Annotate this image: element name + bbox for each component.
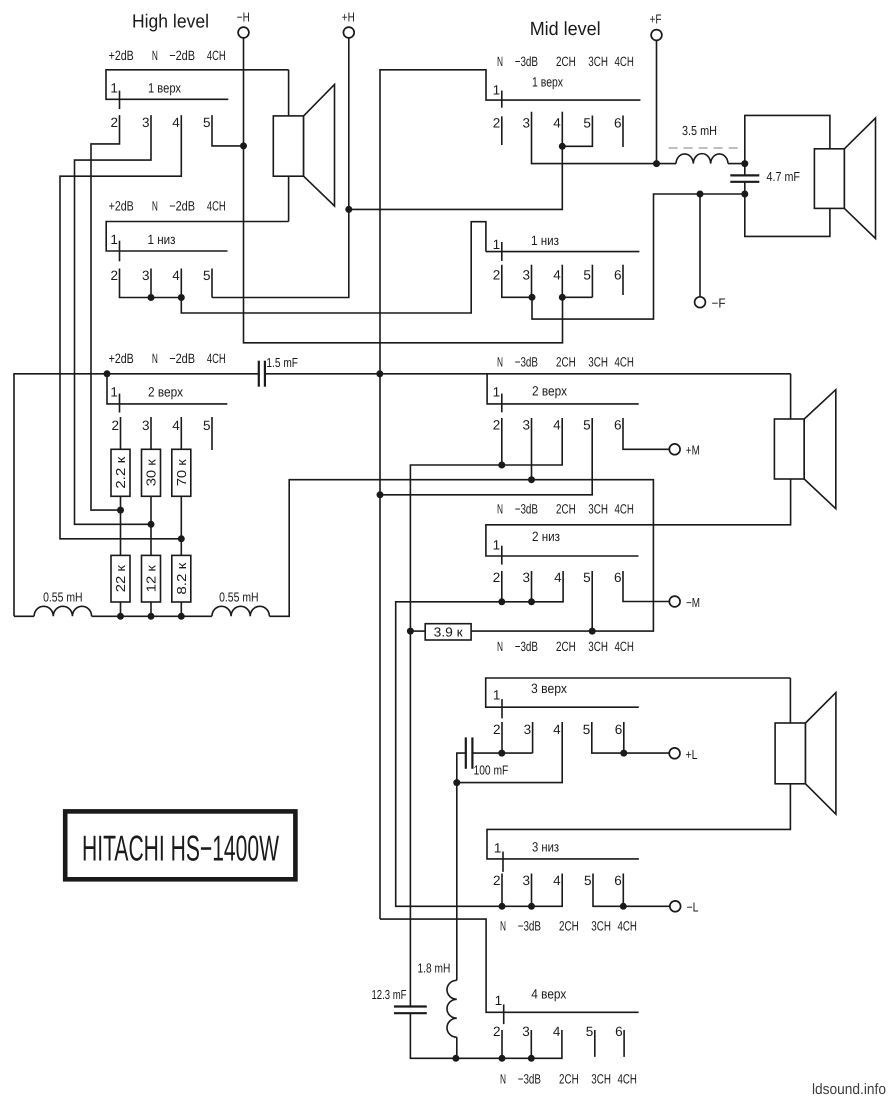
node capacitor C1 bottom [741, 191, 748, 198]
resistor R7 3.9k body [425, 624, 471, 640]
pin 2 lead high 2-verh into resistor R1 [120, 417, 122, 449]
wire capacitor C4 right lead to pin2 [472, 752, 532, 754]
svg-text:1: 1 [493, 688, 501, 703]
svg-text:70 к: 70 к [174, 459, 189, 486]
svg-text:1: 1 [493, 83, 501, 98]
svg-text:4: 4 [172, 268, 180, 283]
wire mid 2-verh pin6 to +M terminal [623, 418, 670, 449]
svg-text:5: 5 [583, 570, 591, 585]
pin 2 tick mid 2-verh [501, 418, 503, 465]
svg-text:5: 5 [584, 873, 592, 888]
svg-text:N: N [497, 639, 503, 654]
capacitor C4 100 mF right plate [471, 737, 473, 768]
svg-text:12 к: 12 к [144, 565, 159, 592]
pin 4 tick mid 1-verh [561, 112, 563, 147]
svg-text:−2dB: −2dB [169, 351, 195, 366]
wire mid 3-niz pin5 to -L terminal [593, 874, 671, 907]
speaker BM mid cone [804, 390, 836, 509]
svg-text:4: 4 [172, 418, 180, 433]
speaker BM mid driver [774, 419, 804, 479]
wire mid 1-verh pin4 to pin5 [562, 116, 592, 147]
wire speaker M loop and block mid 2-niz box [486, 374, 791, 556]
capacitor C2 1.5 mF left plate [258, 361, 260, 387]
svg-text:4CH: 4CH [615, 355, 634, 370]
speaker BL low cone [806, 693, 836, 815]
wire high 1-verh pin3 to left bus to resistor tap B [75, 115, 152, 524]
svg-text:3: 3 [522, 115, 530, 130]
wire mid 1-verh pin4 down-left to +H node [349, 146, 563, 209]
node high 1-verh pin5 on -H [240, 142, 247, 149]
terminal -L [670, 901, 681, 912]
svg-text:+F: +F [650, 12, 662, 27]
pin 1 tick high 1-verh [119, 91, 121, 110]
switch block high 2-verh outline [107, 374, 227, 404]
svg-text:4CH: 4CH [615, 502, 634, 517]
svg-text:100 mF: 100 mF [474, 763, 509, 778]
svg-text:3: 3 [142, 268, 150, 283]
wire resistor chain B bottom [150, 602, 152, 616]
resistor R2 30k body [142, 449, 161, 496]
svg-text:N: N [497, 502, 503, 517]
svg-text:6: 6 [614, 418, 622, 433]
svg-text:−3dB: −3dB [518, 1072, 541, 1087]
svg-text:2 верх: 2 верх [532, 384, 567, 399]
wire resistor chain A mid [120, 496, 122, 555]
svg-text:−3dB: −3dB [515, 639, 538, 654]
svg-text:1: 1 [493, 538, 501, 553]
node mid 3-niz pin3 [528, 903, 535, 910]
switch block mid 1-niz underline [486, 251, 640, 253]
svg-text:1.5 mF: 1.5 mF [266, 355, 298, 370]
svg-text:N: N [497, 355, 503, 370]
svg-text:−3dB: −3dB [515, 502, 538, 517]
svg-text:4CH: 4CH [207, 48, 226, 63]
svg-text:2: 2 [493, 1024, 501, 1039]
svg-text:6: 6 [614, 570, 622, 585]
wire bus below capacitor C5 to 4-verh pins [410, 1013, 562, 1058]
node 4-verh pin2 [499, 1055, 506, 1062]
pin 3 tick mid 2-niz [531, 571, 533, 602]
speaker BF front driver [814, 149, 844, 209]
svg-text:5: 5 [203, 418, 211, 433]
pin 1 tick mid 3-niz [502, 852, 504, 872]
resistor R3 70k body [172, 449, 191, 496]
svg-text:−3dB: −3dB [518, 919, 541, 934]
pin 2 tick mid 2-niz [501, 571, 503, 602]
svg-text:+2dB: +2dB [109, 351, 134, 366]
svg-text:2CH: 2CH [556, 355, 576, 370]
svg-text:−3dB: −3dB [515, 355, 538, 370]
svg-text:6: 6 [614, 267, 622, 282]
inductor L3 0.55 mH winding [212, 606, 270, 616]
svg-text:4CH: 4CH [207, 351, 226, 366]
wire mid 3-verh pin5 to +L terminal [592, 722, 670, 753]
svg-text:ldsound.info: ldsound.info [812, 1081, 886, 1098]
svg-text:1: 1 [110, 81, 118, 96]
wire resistor chain C bottom [180, 602, 182, 616]
pin 3 tick mid 3-niz [531, 874, 533, 907]
wire high 1-verh pin5 to -H node [212, 115, 244, 146]
svg-text:3CH: 3CH [588, 355, 608, 370]
svg-text:1: 1 [110, 232, 118, 247]
svg-text:2: 2 [493, 267, 501, 282]
wire mid 2-niz pin5 to resistor R7 net [591, 571, 593, 631]
svg-text:−H: −H [237, 10, 250, 25]
svg-text:2: 2 [493, 418, 501, 433]
svg-text:5: 5 [583, 722, 591, 737]
pin 1 tick mid 2-verh [501, 394, 503, 413]
svg-text:2CH: 2CH [556, 639, 576, 654]
svg-text:2: 2 [493, 722, 501, 737]
terminal +M [669, 444, 680, 455]
svg-text:1.8 mH: 1.8 mH [418, 961, 451, 976]
pin 1 tick mid 1-niz [501, 242, 503, 261]
svg-text:3CH: 3CH [591, 919, 611, 934]
wire high 1-niz pin2 to pin4 [120, 269, 182, 298]
switch block mid 2-verh outline [487, 374, 639, 404]
svg-text:3: 3 [522, 267, 530, 282]
pin 5 tick high 1-niz [211, 269, 213, 298]
svg-text:1: 1 [495, 993, 503, 1008]
pin 1 tick mid 3-verh [501, 699, 503, 718]
svg-text:2: 2 [110, 115, 118, 130]
svg-text:4CH: 4CH [615, 639, 634, 654]
capacitor C5 12.3 mF bottom plate [394, 1012, 427, 1014]
wire high 1-niz pin4 to mid 1-niz block entry [181, 222, 486, 313]
svg-text:N: N [152, 48, 158, 63]
svg-text:1 низ: 1 низ [148, 232, 176, 247]
pin 3 tick mid 4-verh [530, 1030, 532, 1058]
terminal -M [669, 596, 680, 607]
svg-text:3: 3 [522, 1024, 530, 1039]
node resistor R7 to bus [407, 628, 414, 635]
svg-text:1 верх: 1 верх [532, 75, 563, 90]
wire resistor chain C mid [180, 496, 182, 555]
node mid 2-niz pin5 [589, 628, 596, 635]
svg-text:1 низ: 1 низ [531, 233, 559, 248]
pin 5 tick mid 4-verh [594, 1030, 596, 1057]
node mid 2-niz pin2 [498, 598, 505, 605]
node mid 1-niz pin4 [559, 294, 566, 301]
wire inductor L1 to speaker F loop [728, 163, 745, 165]
node mid 3-niz pin2 [499, 903, 506, 910]
svg-text:6: 6 [614, 115, 622, 130]
wire capacitor C2 right lead to mid 2-verh top and speaker M [265, 373, 791, 375]
svg-text:12.3 mF: 12.3 mF [372, 987, 407, 1002]
pin 5 tick high 2-verh [211, 417, 213, 450]
svg-text:2.2 к: 2.2 к [113, 456, 128, 488]
svg-text:High level: High level [132, 12, 209, 33]
wire mid 3-verh pin4 to capacitor C4 node [457, 722, 562, 783]
svg-text:8.2 к: 8.2 к [174, 562, 189, 594]
speaker BL low driver [775, 723, 805, 784]
pin 3 lead mid 2-verh [531, 418, 533, 480]
node high 2-verh top [104, 370, 111, 377]
svg-text:5: 5 [583, 267, 591, 282]
wire capacitor C4 left lead down to node [457, 753, 466, 783]
svg-text:4: 4 [172, 115, 180, 130]
wire +F terminal lead [656, 40, 658, 164]
pin 6 tick mid 3-niz [622, 874, 624, 907]
svg-text:6: 6 [615, 1024, 623, 1039]
svg-text:2: 2 [111, 418, 119, 433]
capacitor C2 1.5 mF right plate [264, 361, 266, 387]
svg-text:4CH: 4CH [618, 919, 637, 934]
svg-text:4: 4 [553, 115, 561, 130]
svg-text:2: 2 [493, 570, 501, 585]
svg-text:HITACHI HS−1400W: HITACHI HS−1400W [82, 828, 279, 869]
node bottom bus L4 [452, 1055, 459, 1062]
wire high speaker loop right drop [288, 70, 290, 222]
terminal +L [669, 748, 680, 759]
svg-text:N: N [152, 351, 158, 366]
svg-text:+L: +L [686, 747, 698, 762]
svg-text:−L: −L [687, 900, 699, 915]
node high 1-niz pin4 [178, 294, 185, 301]
capacitor C1 4.7 mF bottom plate [730, 181, 759, 183]
terminal +F [651, 30, 662, 41]
svg-text:−M: −M [686, 595, 700, 610]
wire mid 2-verh pin5 to main bus [380, 418, 592, 495]
svg-text:4: 4 [553, 873, 561, 888]
wire mid 1-niz pin4 to pin5 [562, 296, 592, 298]
svg-text:3: 3 [522, 873, 530, 888]
speaker BF front cone [844, 118, 875, 239]
svg-text:4: 4 [553, 1024, 561, 1039]
node 4-verh pin3 [528, 1055, 535, 1062]
svg-text:4CH: 4CH [207, 199, 226, 214]
node bottom bus A [117, 613, 124, 620]
svg-text:3: 3 [522, 418, 530, 433]
svg-text:3: 3 [142, 115, 150, 130]
pin 2 tick mid 4-verh [501, 1030, 503, 1058]
pin 2 tick mid 3-niz [501, 874, 503, 907]
svg-text:2: 2 [493, 873, 501, 888]
svg-text:5: 5 [203, 268, 211, 283]
node mid 1-niz pin3 [529, 294, 536, 301]
wire resistor chain B mid [150, 496, 152, 555]
node resistor tap B [148, 521, 155, 528]
wire speaker F loop [745, 115, 830, 236]
svg-text:2 верх: 2 верх [148, 385, 183, 400]
svg-text:6: 6 [614, 873, 622, 888]
wire bus to mid 2-verh pin2 and pin4 and down to capacitor C5 [410, 418, 562, 1006]
svg-text:4 верх: 4 верх [531, 987, 566, 1002]
terminal +H [343, 27, 354, 38]
node main bus at C2 net [376, 370, 383, 377]
svg-text:4: 4 [553, 418, 561, 433]
resistor R1 2.2k body [111, 449, 130, 496]
svg-text:3 низ: 3 низ [532, 840, 559, 855]
svg-text:30 к: 30 к [144, 459, 159, 486]
wire resistor R7 left lead [410, 630, 425, 632]
pin 4 tick high 1-niz [180, 269, 182, 298]
svg-text:0.55 mH: 0.55 mH [43, 589, 83, 604]
svg-text:1: 1 [110, 385, 118, 400]
pin 5 tick mid 1-niz [591, 265, 593, 298]
node high 1-niz pin3 [148, 294, 155, 301]
svg-text:2CH: 2CH [559, 1072, 579, 1087]
svg-text:0.55 mH: 0.55 mH [219, 589, 259, 604]
pin 1 tick mid 4-verh [503, 1004, 505, 1024]
svg-text:5: 5 [203, 115, 211, 130]
wire bottom bus middle segment [92, 615, 212, 617]
pin 1 tick mid 2-niz [501, 546, 503, 565]
pin 4 lead high 2-verh into resistor R3 [180, 417, 182, 449]
terminal -F [695, 297, 706, 308]
svg-text:2CH: 2CH [556, 54, 576, 69]
capacitor C4 100 mF left plate [465, 737, 467, 768]
pin 3 tick mid 3-verh [532, 722, 534, 753]
node mid 2-verh pin3 [528, 476, 535, 483]
pin 1 tick high 1-niz [119, 241, 121, 262]
svg-text:5: 5 [583, 115, 591, 130]
dashed link line above inductor L1 [669, 147, 739, 149]
wire resistor chain A bottom [120, 602, 122, 616]
resistor R5 12k body [142, 555, 161, 602]
svg-text:4CH: 4CH [618, 1072, 637, 1087]
wire bottom bus to mid 2-verh pin3 and down to resistor R7 [269, 480, 653, 631]
svg-text:1 верх: 1 верх [148, 81, 181, 96]
node mid 2-verh pin2 [498, 462, 505, 469]
svg-text:3.5 mH: 3.5 mH [682, 123, 717, 138]
pin 3 tick high 1-niz [150, 269, 152, 298]
node mid 1-verh pin4 [559, 143, 566, 150]
svg-text:4CH: 4CH [615, 54, 634, 69]
wire -F net from speaker loop across and down to mid 1-niz pin3 [532, 194, 745, 319]
svg-text:+M: +M [686, 443, 700, 458]
wire bus entry of block 4-verh [380, 919, 639, 1012]
svg-text:−3dB: −3dB [515, 54, 538, 69]
wire +H terminal lead down to high 1-niz pin5 [212, 37, 349, 297]
node resistor tap C [178, 535, 185, 542]
capacitor C1 4.7 mF top plate [730, 174, 759, 176]
node bottom bus C [178, 613, 185, 620]
svg-text:+2dB: +2dB [109, 199, 134, 214]
svg-text:2 низ: 2 низ [532, 529, 560, 544]
svg-text:3: 3 [522, 570, 530, 585]
speaker BH high cone [304, 85, 335, 207]
wire capacitor C2 left lead and left bus down to inductor L2 [14, 374, 259, 617]
svg-text:3.9 к: 3.9 к [434, 624, 463, 639]
node +H junction [345, 206, 352, 213]
wire high 1-verh pin2 to left bus to resistor tap A [91, 115, 121, 510]
svg-text:Mid level: Mid level [530, 19, 601, 40]
svg-text:N: N [500, 919, 506, 934]
wire mid 1-niz pin2 to pin3 [502, 265, 532, 298]
svg-text:N: N [152, 199, 158, 214]
pin 1 tick high 2-verh [119, 394, 121, 413]
wire speaker L loop and block mid 3-niz box [487, 678, 790, 859]
node mid 2-niz pin3 [528, 598, 535, 605]
pin 4 tick mid 1-niz [561, 265, 563, 298]
svg-text:4: 4 [553, 722, 561, 737]
wire mid 2-niz pin6 to -M terminal [623, 571, 670, 602]
svg-text:−2dB: −2dB [169, 48, 195, 63]
svg-text:+2dB: +2dB [109, 48, 134, 63]
svg-text:3: 3 [524, 722, 532, 737]
svg-text:5: 5 [583, 418, 591, 433]
svg-text:2CH: 2CH [556, 502, 576, 517]
wire -F terminal lead [699, 194, 701, 297]
node mid 3-verh pin2 [498, 750, 505, 757]
resistor R6 8.2k body [172, 555, 191, 602]
inductor L1 3.5 mH winding [676, 154, 728, 164]
node mid 3-niz pin6 [620, 903, 627, 910]
switch block mid 3-verh outline with speaker L feed [486, 678, 791, 707]
pin 6 tick mid 3-verh [623, 722, 625, 753]
speaker BH high driver [273, 116, 303, 176]
svg-text:22 к: 22 к [113, 565, 128, 592]
node -F junction [697, 191, 704, 198]
node bottom bus B [148, 613, 155, 620]
svg-text:2CH: 2CH [559, 919, 579, 934]
node +F junction [653, 160, 660, 167]
svg-text:N: N [500, 1072, 506, 1087]
svg-text:6: 6 [615, 722, 623, 737]
svg-text:3CH: 3CH [588, 54, 608, 69]
svg-text:1: 1 [494, 841, 502, 856]
pin 2 tick mid 1-verh [501, 116, 503, 145]
svg-text:3: 3 [142, 418, 150, 433]
svg-text:3CH: 3CH [588, 502, 608, 517]
wire inductor L4 to bottom bus [456, 1037, 458, 1058]
pin 1 tick mid 1-verh [501, 91, 503, 108]
inductor L4 1.8 mH winding [447, 980, 457, 1037]
terminal -H [238, 27, 249, 38]
pin 3 lead high 2-verh into resistor R2 [150, 417, 152, 449]
svg-text:N: N [497, 54, 503, 69]
inductor L2 0.55 mH winding [34, 606, 92, 616]
node mid 3-verh pin6 [620, 750, 627, 757]
svg-text:1: 1 [493, 237, 501, 252]
node capacitor C4 junction [453, 779, 460, 786]
resistor R4 22k body [111, 555, 130, 602]
pin 3 tick mid 1-niz [531, 265, 533, 298]
wire mid 2-niz pins to bus and 3-niz pins [396, 571, 563, 906]
wire bottom bus left segment [14, 615, 34, 617]
wire -H terminal lead down and across to mid 1-niz pin4 [244, 37, 563, 343]
svg-text:3 верх: 3 верх [531, 681, 567, 696]
svg-text:−2dB: −2dB [169, 199, 195, 214]
svg-text:2: 2 [110, 268, 118, 283]
node main bus at pin5 wire [377, 491, 384, 498]
capacitor C5 12.3 mF top plate [394, 1005, 427, 1007]
svg-text:5: 5 [586, 1024, 594, 1039]
svg-text:2: 2 [493, 115, 501, 130]
wire mid 1-verh pin3 to inductor L1 [532, 112, 677, 164]
svg-text:4.7 mF: 4.7 mF [767, 169, 801, 184]
wire high 1-verh pin4 to left bus to resistor tap C [60, 115, 181, 539]
svg-text:−F: −F [712, 296, 726, 311]
wire node bus down to inductor L4 [456, 783, 458, 981]
svg-text:3CH: 3CH [588, 639, 608, 654]
node resistor tap A [117, 507, 124, 514]
svg-text:4: 4 [553, 267, 561, 282]
svg-text:3CH: 3CH [591, 1072, 611, 1087]
svg-text:1: 1 [493, 385, 501, 400]
svg-text:4: 4 [554, 570, 562, 585]
pin 6 tick mid 1-niz [622, 265, 624, 295]
label frame HITACHI HS-1400W [65, 811, 295, 879]
pin 6 tick mid 4-verh [623, 1030, 625, 1057]
pin 2 tick mid 3-verh [501, 722, 503, 753]
switch block high 1-verh outline [106, 70, 289, 100]
pin 6 tick mid 1-verh [622, 116, 624, 148]
switch block high 1-niz outline [106, 222, 288, 252]
svg-text:+H: +H [342, 10, 355, 25]
node inductor L1 to speaker F [741, 160, 748, 167]
